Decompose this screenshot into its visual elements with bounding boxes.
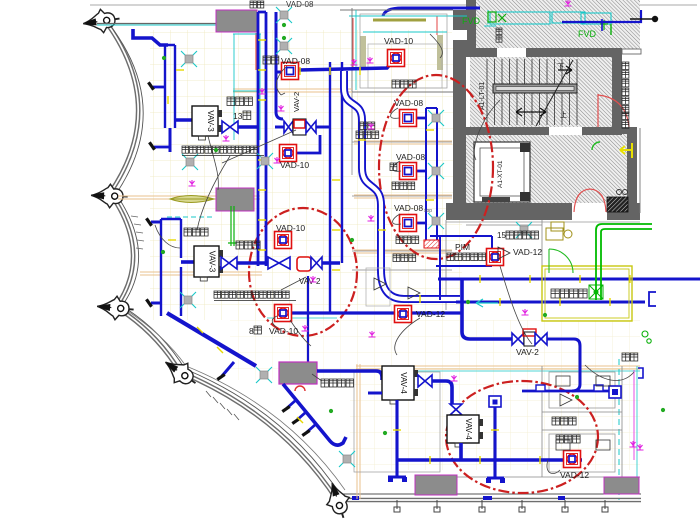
- cyan X marker (284,46): [276, 38, 292, 54]
- label 区域静压阀: [447, 253, 486, 261]
- svg-text:13: 13: [233, 111, 243, 121]
- cyan X marker (264,375): [256, 367, 272, 383]
- cyan X marker (524,230): [516, 222, 532, 238]
- svg-text:15: 15: [497, 231, 506, 240]
- label 会议室: [392, 80, 416, 88]
- stair handrail bar: [493, 84, 577, 93]
- cyan dash lines: [167, 216, 215, 218]
- svg-text:FVD: FVD: [578, 29, 597, 39]
- label 合用: [622, 112, 629, 128]
- small red hood circle: [295, 386, 305, 391]
- olive leaf decorative: [170, 196, 214, 203]
- top-right key symbol: [630, 18, 652, 20]
- duct into VAV-3 #1: [175, 118, 192, 122]
- wall: inner thin offset line: [106, 20, 641, 494]
- label 资料室: [396, 236, 419, 244]
- room columns: [360, 36, 366, 70]
- cyan top line of room: [349, 15, 467, 17]
- label 资料室: [392, 182, 415, 190]
- svg-text:VAV-2: VAV-2: [292, 92, 301, 112]
- green piping: [596, 224, 652, 300]
- duct: trunk diagonal to AHU: [167, 313, 256, 366]
- svg-text:VAD-12: VAD-12: [560, 470, 589, 480]
- stair core hatched area: [470, 57, 612, 127]
- green dots: [161, 23, 665, 435]
- gray rect R5 bottom right: [604, 477, 639, 494]
- svg-text:上: 上: [560, 110, 567, 119]
- diffuser VAD-08 #A: [400, 110, 417, 127]
- elevator car: [474, 142, 530, 202]
- partitions: bottom right conference rooms: [354, 366, 640, 477]
- duct: below VAV-4#2 and run y460: [397, 443, 582, 460]
- ornament finial O2: [91, 184, 128, 209]
- cyan X marker (347,459): [339, 451, 355, 467]
- svg-text:下: 下: [557, 63, 564, 71]
- diffuser VAD-08 #1: [282, 63, 299, 80]
- pale orange partition lines: [118, 89, 640, 499]
- svg-text:VAV-3: VAV-3: [206, 110, 215, 132]
- black hatch shaft rect: [607, 197, 628, 212]
- svg-text:VAD-10: VAD-10: [269, 326, 298, 336]
- khaki furniture: [546, 222, 572, 240]
- grey AHU box 中式茶室: [279, 362, 317, 384]
- blue C bracket right mid: [649, 292, 656, 306]
- trunk red hatched end cap: [424, 240, 439, 248]
- diagonal duct stubs: [287, 400, 316, 432]
- diffuser VAD-10 #3: [275, 305, 292, 322]
- svg-text:VAD-08: VAD-08: [394, 98, 423, 108]
- duct stub 1: [153, 86, 165, 89]
- diffuser VAD-10 #2b: [275, 232, 292, 249]
- label 人: [254, 326, 261, 334]
- ornament finial O3: [96, 295, 134, 322]
- thin line right of lower wall: [639, 128, 641, 213]
- wall: left scalloped boundary (outer double line): [100, 14, 641, 500]
- thin duct to AHU top: [307, 276, 309, 362]
- partitions: top center conference room: [340, 8, 453, 92]
- label 风井: [496, 28, 502, 42]
- label 总裁办: [236, 241, 260, 249]
- stair break line + arrows: [536, 60, 573, 126]
- duct: right supply trunk double-line: [426, 108, 437, 242]
- duct: horizontal run to VAD-10 top: [299, 62, 392, 70]
- wall: hinge ticks on arc: [131, 216, 144, 249]
- VAV terminal box VAV-3: [192, 106, 222, 140]
- label 财务: [360, 122, 375, 130]
- VAV terminal box VAV-4: [382, 366, 418, 404]
- diffuser VAD-12 #0: [487, 249, 504, 266]
- red partition line in room: [353, 16, 437, 70]
- 弱电机房 yellow room border: [542, 266, 632, 321]
- ornament finial O5 (bottom): [321, 479, 355, 521]
- duct into VAV-3 #2: [181, 260, 194, 264]
- duct: long vertical x336 with flex: [330, 62, 342, 313]
- svg-text:VAD-10: VAD-10: [384, 36, 413, 46]
- svg-text:8: 8: [249, 326, 254, 336]
- duct: big S-duct (hollow double line): [344, 71, 460, 299]
- green door arc: [549, 249, 573, 273]
- svg-text:A1-XT-01: A1-XT-01: [497, 160, 504, 188]
- diffuser VAD-10 #1: [388, 50, 405, 67]
- top band: green FVD symbols: [488, 12, 608, 30]
- svg-text:VAD-12: VAD-12: [513, 247, 542, 257]
- VAV-2 #1b assembly on y263 run: [268, 257, 290, 269]
- elevator hall hatched area: [464, 134, 627, 203]
- duct: drop to VAV-2 #2: [462, 279, 512, 339]
- cyan X marker (436,221): [428, 213, 444, 229]
- trunk stubs to VAD-08 diffusers: [416, 118, 426, 223]
- blue bracket right edge: [638, 368, 643, 378]
- label 资料室: [356, 131, 379, 139]
- cyan line along corridor: [356, 370, 640, 372]
- red dashed cloud ellipse E3 (bottom): [446, 381, 598, 493]
- door hardware circles: [617, 190, 622, 195]
- cyan X marker (436,171): [428, 163, 444, 179]
- red dashed cloud ellipse E1 (center-left): [249, 208, 357, 336]
- VAV terminal box VAV-3: [194, 246, 223, 281]
- label 中式茶室: [321, 379, 354, 387]
- duct stub 2: [154, 146, 170, 149]
- svg-text:VAD-08: VAD-08: [396, 152, 425, 162]
- small green arc top: [592, 142, 600, 150]
- duct stub to VAD-08 diffuser: [276, 71, 293, 74]
- svg-text:VAD-12: VAD-12: [416, 309, 445, 319]
- label 总裁办: [184, 228, 208, 236]
- VAV-2 #1 assembly: [275, 126, 284, 129]
- svg-text:A1-LT-01: A1-LT-01: [479, 82, 486, 110]
- blue curve top center: [383, 8, 480, 16]
- ornament finial O4: [159, 353, 203, 393]
- label 独办: [263, 56, 279, 64]
- red door arc stair core: [598, 94, 629, 127]
- red dashed cloud ellipse E2 (large, right-center): [379, 75, 493, 259]
- gray shaft rect R1: [216, 10, 257, 32]
- cyan X marker (284,15): [276, 7, 292, 23]
- svg-text:VAD-08: VAD-08: [394, 203, 423, 213]
- thin line below stair bottom band: [446, 221, 640, 223]
- duct: second vertical x276: [276, 12, 283, 119]
- diffuser VAD-08 #C: [400, 215, 417, 232]
- svg-text:VAV-3: VAV-3: [208, 251, 217, 273]
- white door gaps in walls: [452, 30, 607, 220]
- duct: left lower wide trunk (double-line): [161, 219, 181, 316]
- duct left of VAV-4#1 bottom: [368, 392, 382, 395]
- thin double wall lines top-right: [622, 49, 641, 54]
- duct: horizontal run y314 VAD-12 #1: [291, 311, 461, 314]
- ornament finial O1 (top): [82, 7, 122, 35]
- cyan X marker (265,161): [257, 153, 273, 169]
- svg-text:sop: sop: [424, 208, 432, 214]
- svg-text:VAD-10: VAD-10: [280, 160, 309, 170]
- green fan symbol: [589, 285, 603, 299]
- cyan X marker (436,118): [428, 110, 444, 126]
- green circles right edge: [642, 331, 648, 337]
- duct: top-left riser: [133, 29, 168, 45]
- blue dashes on bottom wall: [352, 496, 565, 500]
- top band: cyan duct rects: [484, 10, 611, 26]
- label 排: [390, 163, 397, 171]
- label 人: [243, 111, 251, 120]
- label 程序由变风量改定压阀: [214, 291, 289, 298]
- duct: long horizontal y279: [438, 277, 700, 280]
- label 人会议室: [506, 231, 539, 239]
- walls of stair block: [446, 0, 640, 220]
- svg-text:VAD-10: VAD-10: [276, 223, 305, 233]
- duct: right rooms run y391: [522, 390, 609, 393]
- label 会议室: [556, 435, 580, 443]
- wall: second inner thin line lower: [126, 310, 345, 490]
- svg-text:VAD-08: VAD-08: [286, 0, 314, 9]
- duct: VAV-4#1 drop + flange: [388, 400, 406, 477]
- olive bar in room: [373, 19, 426, 22]
- diffuser VAD-12 #2: [564, 451, 581, 468]
- stair treads vertical lines: [487, 59, 577, 125]
- trunk stub bottom: [151, 302, 161, 305]
- cyan X marker (190,162): [182, 154, 198, 170]
- duct stub on diagonal: [222, 362, 234, 376]
- label 会议室: [552, 417, 576, 425]
- svg-text:VAV-4: VAV-4: [464, 418, 473, 440]
- gray rect R4 bottom: [415, 475, 457, 495]
- VAV terminal box VAV-4: [447, 415, 483, 447]
- wall hinge ticks seg4: [206, 391, 239, 420]
- green riser line: [228, 206, 237, 246]
- cyan arrow corridor: [476, 299, 498, 307]
- svg-text:PIM: PIM: [455, 242, 470, 252]
- cyan X marker (189,59): [181, 51, 197, 67]
- red double door arcs bottom: [574, 189, 606, 212]
- cyan X marker (188,300): [180, 292, 196, 308]
- svg-text:VAD-08: VAD-08: [281, 56, 310, 66]
- cyan partition lines top: [97, 10, 356, 90]
- duct: blue rect group top of PIM: [430, 236, 492, 300]
- partitions: right column rooms: [352, 92, 452, 270]
- bottom wall tick posts: [394, 500, 608, 512]
- yellow duct ticks: [168, 40, 630, 464]
- top border line: [90, 4, 697, 6]
- svg-text:VAV-2: VAV-2: [516, 347, 539, 357]
- duct VAV3#1 to spine: [238, 125, 259, 129]
- label 程序由变风量改定压阀: [182, 146, 257, 153]
- trunk stub top: [151, 221, 161, 224]
- bowtie connector: [222, 121, 238, 133]
- duct end box right: [609, 386, 621, 398]
- cyan partition verticals top-left: [233, 32, 447, 140]
- duct: long horizontal y302: [456, 300, 645, 303]
- label 财务部: [227, 97, 252, 106]
- diffuser VAD-12 #1: [395, 306, 412, 323]
- VAV-2 #2 assembly: [512, 333, 524, 345]
- gray shaft rect R2: [216, 188, 254, 211]
- label 会议室: [393, 254, 416, 262]
- duct to VAD-10 #2: [297, 135, 320, 153]
- furniture triangles bottom rooms: [366, 247, 610, 450]
- duct: VAV-4#1 east then down to VAV-4#2: [432, 381, 452, 404]
- top-right blue pipe: [562, 10, 641, 22]
- svg-text:VAV-4: VAV-4: [399, 372, 408, 394]
- svg-text:FVD: FVD: [462, 16, 481, 26]
- duct: top-left wide vertical: [165, 45, 175, 128]
- ceiling grid pale yellow: [150, 30, 462, 320]
- duct: AHU to VAV-4 #1: [317, 371, 382, 380]
- duct: drop x495 + flange: [487, 406, 504, 478]
- yellow arrow symbol: [620, 143, 633, 158]
- label 独力: [250, 1, 264, 8]
- diffuser VAD-08 #B: [400, 163, 417, 180]
- label PD井与FS井: [622, 62, 629, 113]
- magenta vertical right edge: [633, 370, 635, 460]
- leader lines: [155, 34, 634, 474]
- diffuser VAD-10 #2: [280, 145, 297, 162]
- duct: diagonal along wall from AHU: [283, 384, 346, 445]
- label 弱电机房: [551, 289, 587, 298]
- stair block hatched top band: [470, 0, 640, 49]
- magenta marks: [189, 180, 196, 186]
- label 挡烟: [622, 353, 638, 361]
- duct: central vertical spine (double line): [258, 12, 266, 266]
- partitions: middle right under stair: [446, 220, 542, 310]
